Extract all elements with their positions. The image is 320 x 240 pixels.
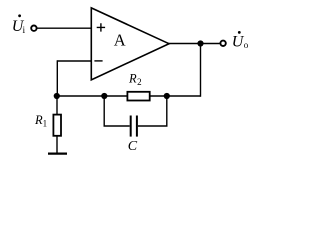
wire: op-amp inverting input horizontal segment	[57, 60, 92, 62]
svg-text:i: i	[23, 26, 26, 36]
svg-text:1: 1	[43, 118, 48, 128]
ground symbol	[48, 153, 67, 155]
wire: capacitor left lead	[104, 125, 130, 127]
op-amp minus sign	[94, 60, 102, 62]
junction dot: node A (inverting input / R1 / bus)	[54, 93, 60, 99]
wire: capacitor right lead	[138, 125, 168, 127]
input terminal circle	[31, 26, 36, 31]
junction dot: bus / capacitor right branch	[164, 93, 170, 99]
wire: op-amp output to output terminal	[168, 43, 220, 45]
op-amp plus sign	[97, 23, 105, 31]
svg-text:U: U	[232, 33, 245, 50]
wire: input terminal to op-amp non-inverting input	[37, 27, 92, 29]
wire: node A down through R1 to ground	[56, 96, 58, 154]
capacitor C left plate	[130, 116, 132, 137]
junction dot: bus / capacitor left branch	[101, 93, 107, 99]
wire: output node down to feedback bus corner	[199, 44, 202, 97]
wire: capacitor branch left vertical	[103, 96, 105, 126]
svg-text:o: o	[244, 40, 249, 50]
svg-text:2: 2	[137, 77, 142, 87]
op-amp A triangle	[91, 8, 169, 80]
svg-text:A: A	[114, 31, 126, 50]
capacitor C right plate	[136, 116, 138, 137]
output terminal circle	[220, 41, 225, 46]
svg-text:C: C	[128, 139, 138, 154]
resistor R2 body	[127, 92, 149, 101]
junction dot: output node	[197, 40, 203, 46]
wire: inverting input down to feedback node A	[56, 60, 58, 96]
wire: capacitor branch right vertical	[166, 96, 168, 126]
svg-text:R: R	[128, 71, 137, 85]
resistor R1 body	[53, 115, 61, 136]
wire: feedback bus (node A to corner under output)	[56, 95, 201, 97]
